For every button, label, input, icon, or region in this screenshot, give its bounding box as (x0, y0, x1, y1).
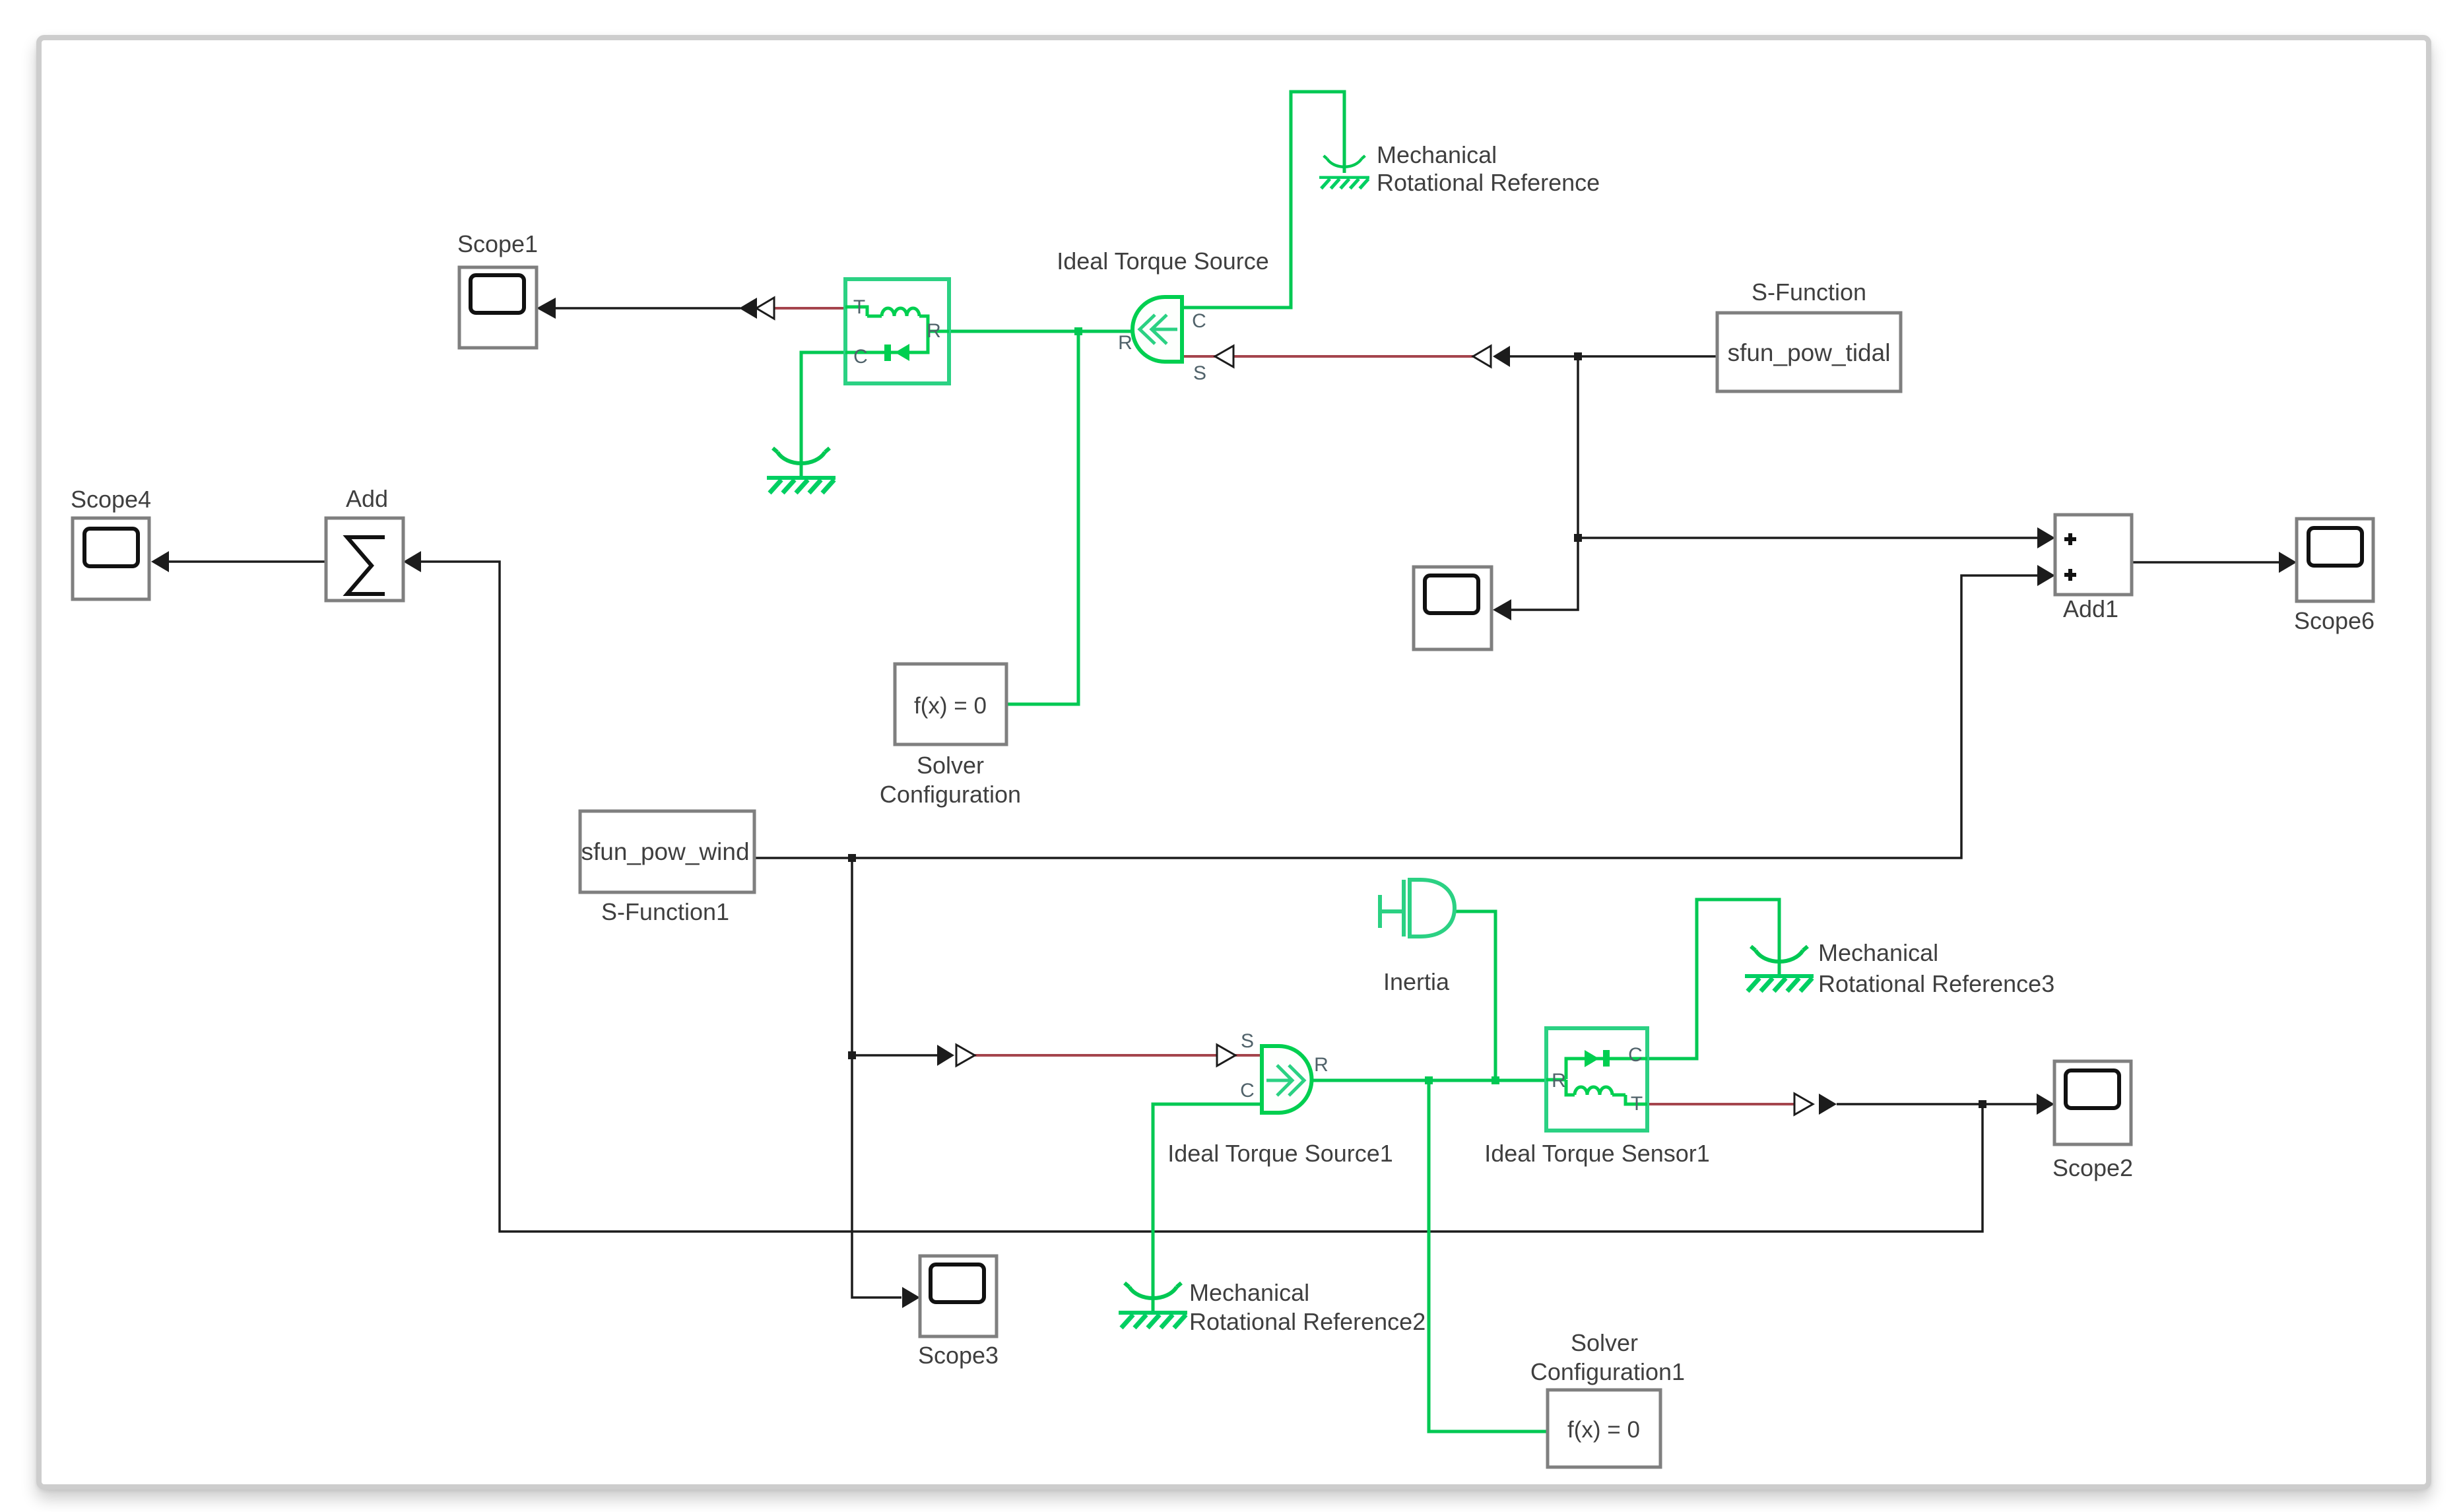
svg-text:C: C (1628, 1044, 1643, 1066)
wire feedback long loop (420, 562, 1983, 1232)
wire S port torque source1 (red) (975, 1054, 1262, 1057)
arrow pair sensor1 T run (1794, 1094, 1813, 1115)
sum block Add1 (2055, 515, 2132, 622)
ideal torque source1 (bottom) (1167, 1030, 1393, 1167)
scope Scope4 (71, 486, 151, 599)
ideal torque source (top) (1057, 247, 1269, 384)
mechanical rotational reference3 (1745, 939, 2054, 997)
node junction A2 (Add1 branch) (1574, 534, 1582, 542)
svg-text:Add1: Add1 (2063, 595, 2118, 622)
wire Scope1 line (555, 307, 740, 310)
wire source1 R to sensor1 R (1311, 1079, 1546, 1082)
svg-text:R: R (1314, 1054, 1328, 1076)
arrow pair sensorT/scope1 (739, 298, 757, 319)
svg-text:R: R (927, 320, 941, 342)
arrow into Scope3 (902, 1287, 920, 1308)
svg-text:S-Function: S-Function (1752, 279, 1866, 306)
svg-text:T: T (1631, 1093, 1643, 1115)
s-function block sfun_pow_tidal (1717, 279, 1901, 391)
svg-text:Rotational Reference3: Rotational Reference3 (1818, 970, 2054, 997)
scope Scope1 (457, 230, 538, 348)
scope Scope2 (2052, 1061, 2133, 1181)
svg-text:Configuration1: Configuration1 (1530, 1358, 1685, 1385)
svg-text:f(x) = 0: f(x) = 0 (1567, 1417, 1640, 1443)
node junction C (scope2 branch) (1979, 1100, 1986, 1108)
wire junction B to PS converter (852, 1054, 940, 1057)
arrow pair s-function red/black (1473, 346, 1491, 367)
ideal torque sensor1 (bottom) (1484, 1028, 1710, 1167)
svg-text:R: R (1118, 332, 1132, 354)
arrow into Scope2 (2037, 1094, 2054, 1115)
wire R wire to solver config1 (1429, 1080, 1548, 1431)
mechanical rotational reference (top) (1319, 141, 1600, 196)
arrow into Scope4 (151, 551, 169, 572)
node junction B (wind wire) (848, 854, 856, 862)
wire junction A to Add1 in1 (1578, 537, 2039, 539)
node green junction inertia (1492, 1076, 1499, 1084)
svg-text:Scope6: Scope6 (2294, 607, 2375, 634)
inertia block (1380, 880, 1455, 995)
node junction A (S-fn wire) (1574, 352, 1582, 360)
svg-text:T: T (853, 296, 865, 318)
arrow pair source1 S run (937, 1045, 954, 1066)
svg-text:f(x) = 0: f(x) = 0 (914, 693, 987, 719)
wire S port torque source (red) (1182, 355, 1473, 358)
node junction B2 (source1 branch) (848, 1051, 856, 1059)
solid arrow into Scope1 (537, 298, 556, 319)
mechanical rotational reference2 (1119, 1279, 1426, 1335)
scope Scope6 (2294, 519, 2375, 634)
scope Scope3 (918, 1256, 999, 1369)
svg-text:Rotational Reference2: Rotational Reference2 (1189, 1308, 1426, 1335)
svg-text:Mechanical: Mechanical (1818, 939, 1938, 966)
svg-text:Inertia: Inertia (1383, 968, 1450, 995)
svg-text:Rotational Reference: Rotational Reference (1377, 169, 1600, 196)
arrow into Add (403, 551, 421, 572)
svg-text:Mechanical: Mechanical (1189, 1279, 1309, 1306)
svg-text:S-Function1: S-Function1 (601, 898, 729, 925)
wire Add1 output to Scope6 (2132, 561, 2281, 564)
arrow into unnamed scope (1493, 599, 1511, 620)
svg-text:Add: Add (346, 485, 388, 512)
wire inertia down to R wire (1455, 911, 1495, 1080)
svg-text:Ideal Torque Source: Ideal Torque Source (1057, 247, 1269, 275)
svg-text:Scope1: Scope1 (457, 230, 538, 257)
svg-text:Ideal Torque Source1: Ideal Torque Source1 (1167, 1140, 1393, 1167)
arrow into Add1 in1 (2037, 527, 2055, 548)
wire sensor1 C to MRR3 (1647, 900, 1779, 1059)
wire solver config to R wire (1006, 331, 1078, 704)
svg-text:Solver: Solver (917, 752, 984, 779)
wire sensor1 T (red) (1647, 1103, 1795, 1105)
svg-text:Solver: Solver (1571, 1329, 1638, 1356)
wire junction A vertical (1511, 356, 1578, 610)
svg-text:Mechanical: Mechanical (1377, 141, 1497, 168)
wire sensor C to ground (801, 352, 845, 476)
wire junction B down (852, 858, 902, 1298)
svg-text:C: C (1240, 1080, 1255, 1101)
svg-text:sfun_pow_wind: sfun_pow_wind (581, 838, 749, 865)
wire source1 C to MRR2 (1153, 1104, 1262, 1311)
svg-text:Scope2: Scope2 (2052, 1154, 2133, 1181)
wire sensor1 T black run (1837, 1103, 2037, 1105)
s-function block sfun_pow_wind (580, 811, 754, 925)
svg-text:C: C (1192, 310, 1206, 332)
scope unnamed (1414, 567, 1492, 649)
svg-text:S: S (1241, 1030, 1254, 1052)
svg-text:Scope3: Scope3 (918, 1342, 999, 1369)
svg-text:Ideal Torque Sensor1: Ideal Torque Sensor1 (1484, 1140, 1710, 1167)
svg-text:Scope4: Scope4 (71, 486, 151, 513)
node green junction solver (1074, 327, 1082, 335)
wire source C to MRR1 (1182, 92, 1344, 308)
wire Add output to Scope4 (168, 560, 326, 563)
wire sensor T to Scope1 (PS red) (773, 307, 845, 310)
ideal torque sensor (top) (845, 279, 949, 383)
ground below sensor C (767, 448, 836, 493)
wire sensor R to source R (949, 330, 1133, 333)
sum block Add (326, 485, 403, 601)
svg-text:sfun_pow_tidal: sfun_pow_tidal (1728, 339, 1891, 366)
node green junction solver1 (1425, 1076, 1433, 1084)
wire S-Function to junction A (1509, 355, 1717, 358)
open arrow at source1 S port (1217, 1045, 1235, 1066)
svg-text:C: C (853, 346, 868, 368)
wire sfun_pow_wind long horizontal (754, 575, 2039, 858)
arrow into Scope6 (2279, 552, 2297, 573)
solver configuration1 block (1530, 1329, 1685, 1467)
solver configuration block (880, 664, 1021, 808)
open arrow at source S port (1215, 346, 1233, 367)
svg-text:S: S (1193, 362, 1206, 384)
svg-text:R: R (1552, 1070, 1566, 1092)
svg-text:Configuration: Configuration (880, 781, 1021, 808)
arrow into Add1 in2 (2037, 565, 2055, 586)
